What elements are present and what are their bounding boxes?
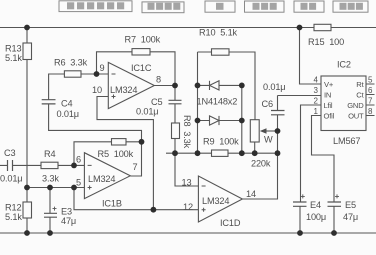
svg-text:C5: C5 — [151, 97, 162, 107]
svg-text:C6: C6 — [262, 99, 273, 109]
wire diode network left vertical — [197, 52, 199, 153]
svg-text:8: 8 — [156, 75, 161, 85]
node D1 left — [195, 83, 201, 89]
text 光线 — [301, 3, 317, 10]
wire signal mid rail — [166, 152, 278, 154]
text 发射管 — [340, 3, 363, 10]
svg-text:220k: 220k — [251, 159, 271, 169]
svg-text:R9 100k: R9 100k — [203, 137, 239, 147]
op-amp U IC1C triangle — [108, 62, 154, 108]
wire bottom ground rail — [0, 232, 376, 234]
resistor R7 — [132, 49, 150, 55]
svg-text:R13: R13 — [5, 44, 21, 54]
svg-text:E4: E4 — [310, 200, 321, 210]
resistor R4 — [41, 162, 58, 168]
potentiometer W 220k body — [250, 120, 259, 142]
svg-text:14: 14 — [246, 189, 256, 199]
svg-text:3.3k: 3.3k — [42, 174, 59, 184]
svg-text:0.01μ: 0.01μ — [136, 107, 158, 117]
resistor R15 — [314, 24, 331, 30]
wire vref pin5 horizontal — [27, 187, 84, 189]
wire C4 bottom to IC1B output node — [49, 104, 142, 142]
resistor R10 — [212, 49, 230, 55]
svg-text:Rt: Rt — [356, 80, 364, 89]
capacitor C3 — [8, 160, 13, 171]
block box emitter tube — [333, 1, 368, 12]
svg-text:4: 4 — [314, 76, 319, 85]
block box photo tube — [245, 1, 285, 12]
resistor R12 — [23, 202, 32, 218]
svg-text:2: 2 — [314, 97, 319, 106]
svg-text:V+: V+ — [324, 80, 334, 89]
svg-text:13: 13 — [182, 178, 192, 188]
svg-text:IC2: IC2 — [337, 60, 351, 70]
wire diode D2 row — [198, 120, 242, 122]
node diode right rail — [239, 150, 245, 156]
node C6 rail — [275, 150, 281, 156]
block box chinese texts simulated — [67, 2, 363, 10]
svg-text:0.01μ: 0.01μ — [57, 109, 79, 119]
svg-text:0.01μ: 0.01μ — [263, 82, 285, 92]
node divider mid — [24, 185, 30, 191]
node D1 right — [239, 83, 245, 89]
node ground E4 — [297, 230, 303, 236]
svg-text:1N4148x2: 1N4148x2 — [197, 97, 238, 107]
op-amp U IC1D triangle — [198, 176, 242, 222]
svg-text:R8 3.3k: R8 3.3k — [182, 115, 192, 149]
wire IC2 V+ pin4 from top rail — [300, 28, 322, 85]
svg-text:IN: IN — [324, 91, 331, 100]
capacitor C4 — [42, 100, 56, 104]
node IC1C output — [172, 83, 178, 89]
node ground R12 — [24, 230, 30, 236]
text 红外线光敏管 — [67, 2, 124, 9]
block box light — [294, 1, 324, 12]
potentiometer W wiper arrow — [260, 128, 267, 134]
wire E3 leads — [49, 188, 51, 234]
wire R10 row — [198, 52, 256, 120]
svg-text:LM567: LM567 — [333, 136, 360, 146]
node R8 bottom rail — [172, 150, 178, 156]
svg-text:9: 9 — [100, 63, 105, 73]
svg-text:C4: C4 — [61, 99, 72, 109]
wire diode D1 row — [198, 84, 242, 86]
wire pot W bottom lead — [254, 142, 256, 153]
svg-text:100μ: 100μ — [306, 212, 326, 222]
svg-text:Ct: Ct — [356, 91, 364, 100]
svg-text:IC1C: IC1C — [131, 63, 152, 73]
svg-text:3: 3 — [314, 86, 319, 95]
wire E4 bottom lead — [299, 206, 301, 233]
svg-text:OUT: OUT — [348, 112, 364, 121]
svg-text:R12: R12 — [5, 203, 21, 213]
node D2 left — [195, 118, 201, 124]
node C6 wiper — [275, 128, 281, 134]
svg-text:6: 6 — [76, 155, 81, 165]
IC2 pin name labels — [324, 80, 365, 121]
svg-text:6: 6 — [368, 86, 373, 95]
svg-text:R10 5.1k: R10 5.1k — [199, 28, 238, 38]
svg-text:IC1D: IC1D — [220, 218, 241, 228]
svg-text:Lfil: Lfil — [324, 101, 333, 110]
block box person — [205, 1, 235, 12]
node D2 right — [239, 118, 245, 124]
wire IC2 Ofil pin1 to E5 — [312, 116, 335, 203]
block label boxes top row — [59, 1, 368, 13]
node top rail IC2 V+ — [297, 25, 303, 31]
value label texts — [0, 28, 360, 229]
svg-text:C3: C3 — [4, 148, 15, 158]
svg-text:5: 5 — [368, 76, 373, 85]
svg-text:R5 100k: R5 100k — [98, 149, 134, 159]
svg-text:LM324: LM324 — [202, 196, 229, 206]
block box IR light — [142, 2, 184, 13]
wire E5 bottom lead — [333, 206, 335, 233]
node ground E5 — [331, 230, 337, 236]
svg-text:47μ: 47μ — [343, 212, 358, 222]
capacitor C5 — [169, 100, 182, 104]
wire diode network right vertical — [241, 85, 243, 153]
svg-text:E5: E5 — [345, 200, 356, 210]
capacitor E5 electrolytic — [328, 194, 342, 206]
svg-text:IC1B: IC1B — [102, 199, 122, 209]
op-amp U IC1B triangle — [84, 153, 130, 199]
svg-text:R4: R4 — [44, 149, 55, 159]
node pin5 — [71, 185, 77, 191]
capacitor E4 electrolytic — [293, 194, 307, 206]
svg-text:10: 10 — [92, 85, 102, 95]
svg-text:LM324: LM324 — [110, 85, 137, 95]
svg-text:5.1k: 5.1k — [5, 212, 22, 222]
svg-text:7: 7 — [133, 162, 138, 172]
node junction dots — [24, 25, 337, 236]
wire IC1D output to signal rail — [242, 153, 277, 199]
node top rail R13 — [24, 25, 30, 31]
svg-text:5.1k: 5.1k — [5, 53, 22, 63]
IC2 LM567 box — [321, 76, 366, 131]
diode D1 1N4148 pointing left — [210, 81, 220, 90]
capacitor C6 — [271, 111, 285, 115]
text 红外光线 — [148, 3, 181, 10]
node E3 top — [47, 185, 53, 191]
wire vref lower horizontal to pin12 — [74, 188, 198, 210]
capacitor E3 electrolytic — [44, 207, 57, 218]
wire top supply rail — [0, 27, 376, 29]
node diode left rail — [195, 150, 201, 156]
resistor R6 — [64, 71, 81, 77]
svg-text:W: W — [264, 135, 273, 145]
wire IC2 right stubs pins 5-8 — [366, 84, 375, 116]
wire IC2 IN pin3 — [278, 95, 322, 97]
node pin6 — [71, 163, 77, 169]
resistor R5 — [112, 139, 127, 145]
wire R13-R12 divider vertical — [26, 28, 28, 234]
node ground E3 — [47, 230, 53, 236]
wire C5 to R8 to signal rail to pin13 — [175, 86, 198, 187]
wire pin10 vref path — [97, 97, 153, 210]
svg-text:1: 1 — [314, 107, 319, 116]
svg-text:LM324: LM324 — [88, 174, 115, 184]
wire C4 top lead and R6 to pin9 — [49, 74, 109, 100]
resistor R9 — [212, 150, 229, 156]
node pot bottom rail — [252, 150, 258, 156]
svg-text:GND: GND — [347, 101, 364, 110]
text 人 — [216, 3, 224, 10]
wire C3 input to R4 to pin6 — [0, 164, 84, 166]
wire pot wiper from C6 node — [262, 130, 278, 132]
svg-text:R6 3.3k: R6 3.3k — [54, 58, 88, 68]
svg-text:47μ: 47μ — [61, 216, 76, 226]
svg-text:R7 100k: R7 100k — [125, 35, 161, 45]
text 光敏管 — [253, 3, 277, 10]
wire R5 feedback loop IC1B — [74, 142, 142, 176]
svg-text:8: 8 — [368, 107, 373, 116]
wire R7 feedback loop IC1C — [97, 52, 176, 86]
node pin9 R6 junction — [94, 71, 100, 77]
svg-text:Ofil: Ofil — [324, 112, 335, 121]
resistor R13 — [23, 43, 32, 60]
node vref pin12 junction — [151, 207, 157, 213]
block box IR photodetector — [59, 1, 132, 12]
svg-text:12: 12 — [183, 202, 193, 212]
wire C6 leads — [277, 96, 279, 154]
svg-text:E3: E3 — [61, 207, 72, 217]
svg-text:7: 7 — [368, 97, 373, 106]
wire IC2 Lfil pin2 to E4 — [301, 105, 322, 202]
IC2 pin number labels — [314, 76, 374, 117]
resistor R8 — [172, 123, 180, 139]
node R5 right / IC1B out — [139, 139, 145, 145]
svg-text:R15 100: R15 100 — [308, 37, 344, 47]
svg-text:5: 5 — [76, 178, 81, 188]
svg-text:0.01μ: 0.01μ — [0, 174, 22, 184]
diode D2 1N4148 pointing right — [210, 116, 220, 125]
wire IC1C output to C5 — [154, 85, 175, 87]
